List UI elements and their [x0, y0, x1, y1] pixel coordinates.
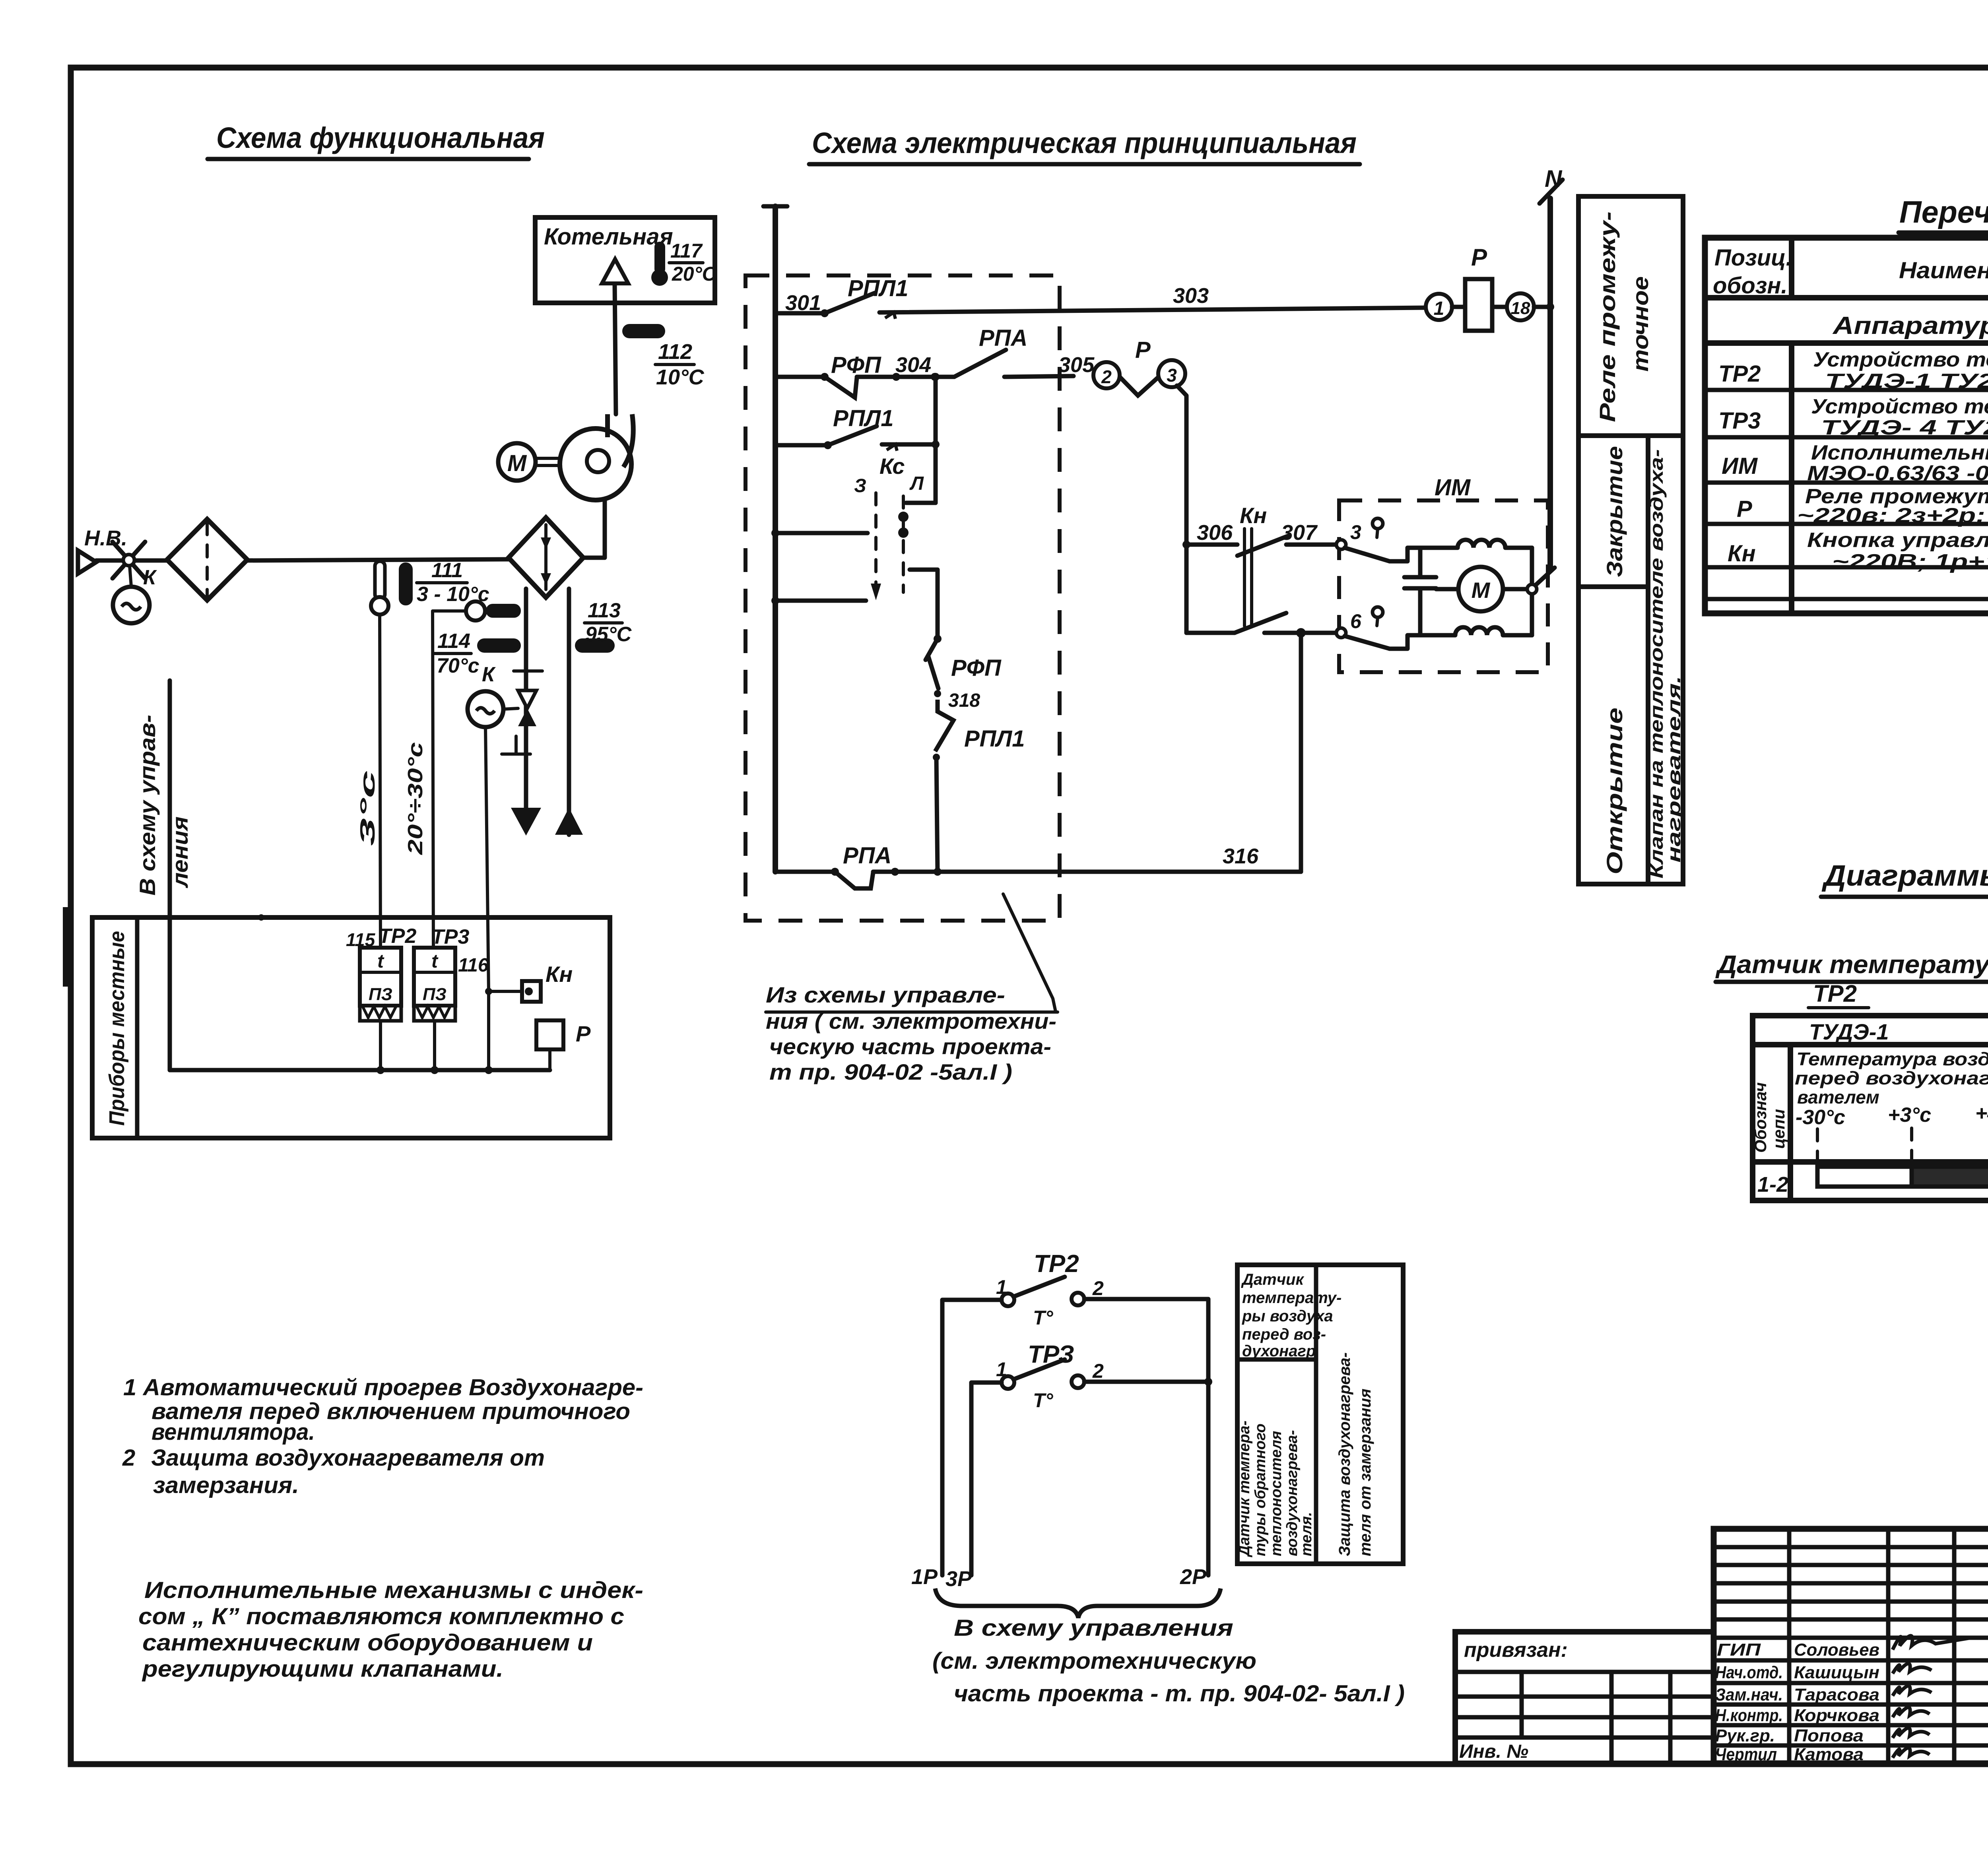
- svg-text:регулирующими клапанами.: регулирующими клапанами.: [142, 1656, 503, 1682]
- signatures squiggles: [1893, 1636, 1971, 1758]
- svg-text:Рук.гр.: Рук.гр.: [1715, 1726, 1775, 1745]
- svg-text:1 Автоматический прогрев Воз: 1 Автоматический прогрев Воздухонагре-: [123, 1375, 643, 1400]
- attachment table привязан: [1455, 1632, 1714, 1763]
- wire: instruments bottom bus: [170, 914, 550, 1074]
- winding upper of ИМ: [1390, 540, 1532, 561]
- note: В схему управления: [932, 1615, 1405, 1706]
- svg-text:Кнопка управления ПКЕ-212-1: Кнопка управления ПКЕ-212-1У2: [1807, 529, 1988, 552]
- damper valve K on duct: [113, 542, 157, 589]
- svg-text:305: 305: [1058, 353, 1095, 377]
- svg-text:В схему управ-: В схему управ-: [135, 715, 160, 896]
- right riser of ИМ with contact to N: [1527, 548, 1555, 635]
- svg-text:Кн: Кн: [1728, 541, 1756, 566]
- wire from circle 3 down to Кн: [1177, 386, 1190, 633]
- node РПЛ1 second line: [775, 441, 832, 449]
- svg-text:сантехническим оборудованием: сантехническим оборудованием и: [142, 1630, 593, 1656]
- wire: duct from heater to fan inlet: [583, 474, 605, 558]
- wire 307: [1281, 521, 1337, 545]
- phase bus with top cap: [763, 206, 787, 872]
- dashed panel boundary box: [745, 275, 1060, 921]
- svg-text:К: К: [482, 663, 496, 686]
- svg-text:РПЛ1: РПЛ1: [964, 726, 1025, 752]
- control valve on heating pipe: [482, 663, 542, 754]
- sensor pocket 112: [622, 324, 705, 389]
- supply fan (volute with inlet circle): [560, 414, 633, 500]
- svg-text:ТУДЭ-1: ТУДЭ-1: [1809, 1019, 1889, 1044]
- legend box Закрытие: [1578, 436, 1648, 587]
- wire: to control circuit (В схему управления): [135, 681, 192, 1070]
- side table: sensor purposes: [1237, 1265, 1403, 1564]
- svg-text:117: 117: [670, 240, 703, 262]
- wire 316 riser: [1299, 633, 1303, 872]
- wire: main air duct: [96, 559, 509, 560]
- motor M in ИМ: [1436, 567, 1532, 611]
- svg-text:К: К: [143, 566, 157, 589]
- brace В схему управления: [935, 1588, 1221, 1618]
- title: Перечень элементов: [1899, 194, 1988, 233]
- svg-text:6: 6: [1350, 610, 1362, 632]
- bus stub to З lower: [771, 597, 866, 605]
- air heater (diamond with flow arrow): [509, 518, 583, 597]
- signature names: [1794, 1640, 1879, 1764]
- svg-text:10°С: 10°С: [656, 365, 705, 389]
- svg-text:306: 306: [1197, 521, 1233, 545]
- svg-text:Датчик темпера-: Датчик темпера-: [1236, 1421, 1253, 1557]
- svg-text:Защита воздухонагревателя о: Защита воздухонагревателя от: [151, 1445, 545, 1471]
- svg-text:Из схемы управле-: Из схемы управле-: [766, 982, 1005, 1007]
- svg-text:3: 3: [1350, 521, 1361, 543]
- svg-text:116: 116: [458, 955, 489, 976]
- svg-text:Позиц.: Позиц.: [1714, 245, 1792, 271]
- svg-text:2: 2: [1092, 1277, 1104, 1299]
- svg-text:304: 304: [895, 353, 931, 377]
- svg-text:Реле промежу-: Реле промежу-: [1595, 211, 1620, 422]
- valve actuator circle: [468, 691, 518, 727]
- svg-text:+40°с: +40°с: [1975, 1102, 1988, 1125]
- svg-text:70°с: 70°с: [437, 654, 480, 677]
- svg-text:Температура воздуха: Температура воздуха: [1796, 1049, 1988, 1069]
- svg-text:Попова: Попова: [1794, 1726, 1864, 1745]
- heating pipe return (up arrow): [555, 589, 583, 835]
- svg-text:ТР2: ТР2: [379, 925, 416, 948]
- svg-text:часть проекта - т. пр. 904-02: часть проекта - т. пр. 904-02- 5ал.I ): [954, 1681, 1405, 1706]
- svg-text:ТУДЭ-1 ТУ25-02. 1074-75: ТУДЭ-1 ТУ25-02. 1074-75: [1825, 370, 1988, 393]
- svg-text:Корчкова: Корчкова: [1794, 1706, 1879, 1725]
- svg-text:1Р: 1Р: [911, 1565, 938, 1589]
- section row: Аппаратура по месту: [1832, 312, 1988, 339]
- thermometer with bulb (line 115 to ТР2): [371, 561, 388, 615]
- svg-text:Н.контр.: Н.контр.: [1715, 1706, 1783, 1725]
- contact РПА (line 304): [935, 325, 1095, 377]
- svg-text:3Р: 3Р: [945, 1567, 972, 1591]
- terminal circle 3: [1158, 360, 1185, 387]
- svg-text:114: 114: [437, 630, 470, 653]
- contact РПЛ1 vertical: [933, 700, 1025, 872]
- wire: sensor 114 down to ТР3: [433, 611, 466, 948]
- svg-text:Нач.отд.: Нач.отд.: [1715, 1663, 1783, 1682]
- svg-text:307: 307: [1281, 521, 1318, 545]
- svg-text:нагревателя.: нагревателя.: [1664, 676, 1684, 863]
- svg-text:Т°: Т°: [1033, 1389, 1054, 1412]
- svg-text:т пр. 904-02 -5ал.I ): т пр. 904-02 -5ал.I ): [769, 1059, 1012, 1084]
- node РФП line: [775, 373, 829, 381]
- svg-text:Зам.нач.: Зам.нач.: [1715, 1685, 1783, 1705]
- svg-text:Кс: Кс: [879, 454, 905, 479]
- svg-text:ления: ления: [167, 816, 192, 888]
- svg-text:ТР3: ТР3: [431, 925, 469, 948]
- svg-text:Кашицын: Кашицын: [1794, 1663, 1879, 1682]
- svg-text:Н.В.: Н.В.: [84, 526, 127, 550]
- filter (diamond with dashed diagonal): [167, 519, 247, 600]
- contact РПЛ1 (second): [828, 405, 940, 451]
- note: Из схемы управления: [766, 982, 1058, 1084]
- svg-text:РПЛ1: РПЛ1: [848, 275, 909, 301]
- svg-text:Датчик температуры: Датчик температуры: [1715, 950, 1988, 979]
- svg-text:Р: Р: [1737, 496, 1752, 522]
- bus stub to З upper: [771, 529, 868, 537]
- svg-text:сом „ К” поставляются компл: сом „ К” поставляются комплектно с: [138, 1604, 624, 1629]
- instrument ТР2: [346, 925, 416, 1021]
- terminal circle 2: [1093, 362, 1120, 388]
- boiler room box Котельная: [535, 217, 715, 303]
- svg-text:Схема функциональная: Схема функциональная: [216, 121, 545, 154]
- actuator ИМ dashed box: [1339, 475, 1548, 672]
- note 1: Автоматический прогрев воздухонагревателя: [123, 1375, 643, 1445]
- relay Р in box: [536, 1020, 591, 1070]
- svg-text:111: 111: [431, 559, 463, 582]
- svg-text:Перечень элементов: Перечень элементов: [1899, 194, 1988, 229]
- signature roles: [1715, 1640, 1783, 1764]
- svg-text:теля.: теля.: [1298, 1512, 1315, 1556]
- svg-text:Инв. №: Инв. №: [1459, 1741, 1528, 1762]
- svg-text:112: 112: [658, 340, 692, 364]
- svg-text:туры обратного: туры обратного: [1252, 1423, 1269, 1556]
- svg-text:Катова: Катова: [1794, 1745, 1864, 1764]
- svg-text:Л: Л: [909, 473, 924, 494]
- svg-text:ИМ: ИМ: [1722, 453, 1758, 479]
- svg-text:113: 113: [588, 599, 621, 622]
- note 3: Исполнительные механизмы: [138, 1577, 643, 1682]
- svg-text:303: 303: [1173, 284, 1209, 308]
- svg-text:МЭО-0,63/63 -0,25 ТУ1- 01.03: МЭО-0,63/63 -0,25 ТУ1- 01.0321-75: [1807, 462, 1988, 485]
- element table grid: [1705, 238, 1988, 613]
- side table cell 2 rotated text: [1236, 1421, 1315, 1557]
- relay coil Р: [1452, 244, 1507, 331]
- svg-text:-30°с: -30°с: [1796, 1106, 1845, 1129]
- svg-text:теля от замерзания: теля от замерзания: [1357, 1388, 1374, 1556]
- svg-text:ния ( см. электротехни-: ния ( см. электротехни-: [766, 1008, 1056, 1034]
- svg-text:Устройство терморегулирующе: Устройство терморегулирующее: [1813, 348, 1988, 371]
- terminal 3 of ИМ: [1336, 518, 1390, 561]
- terminal labels 1Р 3Р 2Р: [911, 1565, 1207, 1591]
- sensor ТР2 diagram table: [1751, 1016, 1988, 1200]
- svg-text:~220в; 2з+2р; ТУ16-523 457: ~220в; 2з+2р; ТУ16-523 457-74: [1797, 504, 1988, 527]
- svg-text:Аппаратура по месту: Аппаратура по месту: [1832, 312, 1988, 339]
- svg-text:18: 18: [1511, 299, 1530, 318]
- svg-text:Т°: Т°: [1033, 1307, 1054, 1329]
- svg-text:РПА: РПА: [979, 325, 1027, 351]
- svg-text:Наименование: Наименование: [1899, 258, 1988, 283]
- side table cell 3 rotated text: [1336, 1352, 1374, 1556]
- svg-text:Исполнительные механизмы: Исполнительные механизмы с индек-: [144, 1577, 643, 1603]
- svg-text:Р: Р: [576, 1021, 591, 1046]
- svg-text:РПЛ1: РПЛ1: [833, 405, 894, 431]
- svg-text:Открытие: Открытие: [1602, 708, 1627, 875]
- air intake arrow Н.В.: [78, 526, 127, 574]
- svg-text:ческую часть проекта-: ческую часть проекта-: [769, 1034, 1051, 1059]
- side table cell 1 text: [1241, 1271, 1342, 1360]
- note 2: Защита воздухонагревателя: [122, 1445, 545, 1498]
- svg-text:115: 115: [346, 929, 376, 950]
- svg-text:привязан:: привязан:: [1464, 1639, 1568, 1662]
- svg-text:Р: Р: [1471, 244, 1487, 271]
- thermometer 117 in boiler room: [651, 240, 717, 286]
- svg-text:Закрытие: Закрытие: [1602, 446, 1627, 577]
- sensor pocket 113: [575, 599, 632, 653]
- svg-text:t: t: [377, 951, 384, 972]
- ТР2 diagram content: [1795, 1049, 1988, 1187]
- svg-text:цепи: цепи: [1769, 1109, 1788, 1149]
- svg-text:Р: Р: [1135, 337, 1151, 363]
- svg-text:духонагр: духонагр: [1242, 1342, 1316, 1360]
- svg-text:ПЗ: ПЗ: [423, 985, 447, 1004]
- row Р: [1737, 485, 1988, 527]
- svg-text:М: М: [507, 450, 527, 476]
- scan artifact on left frame: [63, 907, 73, 987]
- capacitor in ИМ: [1404, 548, 1436, 635]
- terminal circle 18: [1507, 293, 1554, 320]
- contact РПЛ1 (line 301): [775, 275, 909, 319]
- svg-text:20°÷30°с: 20°÷30°с: [404, 742, 427, 855]
- sensor ТР2 diagram title: [1715, 950, 1988, 1008]
- title: Схема электрическая принципиальная: [809, 126, 1360, 164]
- local instruments box Приборы местные: [92, 917, 610, 1138]
- svg-text:обозн.: обозн.: [1713, 273, 1788, 299]
- wire: valve actuator down to Кн: [485, 727, 492, 1070]
- legend column Клапан на теплоносителе: [1646, 436, 1684, 884]
- sensor circle 114 with pocket: [435, 601, 521, 677]
- motor M of fan: [498, 443, 560, 481]
- Кн lower contact: [1186, 613, 1337, 638]
- terminal circle 1: [1426, 294, 1452, 320]
- svg-text:Диаграммы замыкания контакт: Диаграммы замыкания контактов: [1821, 859, 1988, 892]
- bold thermometer 111: [399, 559, 489, 606]
- svg-text:95°С: 95°С: [585, 623, 632, 646]
- svg-text:Датчик: Датчик: [1241, 1271, 1304, 1288]
- svg-text:2: 2: [122, 1445, 135, 1471]
- wires ТР2: [942, 1299, 1208, 1575]
- actuator circle for damper K: [113, 566, 149, 623]
- svg-text:t: t: [431, 951, 439, 972]
- svg-text:(см. электротехническую: (см. электротехническую: [932, 1648, 1256, 1674]
- label 3°С: [356, 770, 379, 846]
- svg-text:РФП: РФП: [951, 655, 1002, 681]
- svg-text:2: 2: [1101, 367, 1112, 387]
- svg-text:Чертил: Чертил: [1715, 1745, 1777, 1764]
- svg-text:N: N: [1545, 165, 1563, 192]
- svg-text:2Р: 2Р: [1180, 1565, 1207, 1589]
- push button Кн in box: [489, 962, 573, 1002]
- svg-text:З: З: [854, 475, 866, 496]
- sensor pocket under 114: [477, 638, 521, 653]
- legend box Реле промежуточное: [1578, 196, 1683, 436]
- terminal 6 of ИМ: [1336, 607, 1390, 649]
- svg-text:ры воздуха: ры воздуха: [1242, 1307, 1333, 1325]
- svg-text:перед воздухонагре-: перед воздухонагре-: [1795, 1068, 1988, 1088]
- svg-text:Схема электрическая принцип: Схема электрическая принципиальная: [812, 126, 1357, 159]
- label 20°÷30°С: [404, 742, 427, 855]
- contact РФП (line 304): [825, 352, 939, 398]
- svg-text:вателем: вателем: [1797, 1087, 1879, 1107]
- svg-text:Устройство терморегулирующе: Устройство терморегулирующее: [1811, 395, 1988, 418]
- svg-text:Котельная: Котельная: [544, 224, 673, 250]
- limit switch КС labels: [854, 454, 924, 496]
- svg-text:ТР2: ТР2: [1718, 361, 1761, 387]
- svg-text:теплоносителя: теплоносителя: [1268, 1431, 1285, 1556]
- legend box Открытие: [1578, 587, 1648, 884]
- contact Р between 2 and 3: [1120, 337, 1158, 396]
- wire from Л to РФП vertical: [910, 570, 942, 643]
- wire 303: [879, 284, 1426, 312]
- svg-text:ТР2: ТР2: [1034, 1250, 1079, 1278]
- row Кн: [1728, 529, 1988, 573]
- contact ТР3: [996, 1341, 1104, 1412]
- heating pipe supply (down arrow): [511, 589, 541, 836]
- node 301: [785, 291, 829, 317]
- title block outer: [1714, 1529, 1988, 1763]
- row ИМ: [1722, 441, 1988, 486]
- svg-text:2: 2: [1092, 1360, 1104, 1382]
- neutral line N: [1540, 165, 1563, 569]
- svg-text:Кн: Кн: [1240, 503, 1267, 528]
- svg-text:ГИП: ГИП: [1717, 1640, 1761, 1660]
- leader line from panel box: [1003, 894, 1056, 1012]
- svg-text:вентилятора.: вентилятора.: [151, 1419, 315, 1445]
- title: Схема функциональная: [208, 121, 545, 159]
- svg-text:Приборы местные: Приборы местные: [105, 931, 129, 1126]
- contact РФП vertical: [926, 639, 1002, 711]
- svg-text:РПА: РПА: [843, 843, 891, 869]
- push button Кн: [1237, 503, 1288, 626]
- svg-text:Соловьев: Соловьев: [1794, 1640, 1879, 1660]
- svg-text:3: 3: [1167, 365, 1177, 386]
- wire: fan outlet up to boiler room box: [615, 284, 616, 414]
- svg-text:316: 316: [1223, 844, 1259, 868]
- svg-text:~220В; 1р+1з: ~220В; 1р+1з: [1832, 550, 1988, 573]
- svg-text:1: 1: [1434, 298, 1444, 319]
- svg-text:М: М: [1472, 578, 1491, 603]
- svg-text:Обознач: Обознач: [1751, 1082, 1770, 1153]
- wire: sensor 115 down to ТР2: [380, 615, 381, 948]
- svg-text:ТР3: ТР3: [1718, 408, 1761, 434]
- wire 316 bottom line: [775, 843, 1301, 888]
- svg-text:ПЗ: ПЗ: [369, 985, 392, 1004]
- svg-text:ТР2: ТР2: [1813, 980, 1857, 1007]
- svg-text:+3°с: +3°с: [1888, 1103, 1931, 1127]
- svg-text:1-2: 1-2: [1757, 1173, 1788, 1196]
- table headers: [1713, 245, 1988, 299]
- svg-text:Защита воздухонагрева-: Защита воздухонагрева-: [1336, 1352, 1353, 1556]
- svg-text:ТУДЭ- 4 ТУ25-02. 1074-75: ТУДЭ- 4 ТУ25-02. 1074-75: [1821, 416, 1988, 439]
- winding lower of ИМ: [1390, 627, 1532, 649]
- svg-text:Исполнительный механизм: Исполнительный механизм: [1811, 441, 1988, 464]
- svg-text:РФП: РФП: [831, 352, 881, 378]
- svg-text:318: 318: [948, 690, 980, 711]
- wires ТР3: [971, 1378, 1212, 1575]
- svg-text:перед воз-: перед воз-: [1242, 1326, 1326, 1343]
- contact ТР2: [996, 1250, 1104, 1329]
- svg-text:Кн: Кн: [546, 962, 573, 987]
- row ТР2: [1718, 348, 1988, 393]
- row ТР3: [1718, 395, 1988, 439]
- svg-text:температу-: температу-: [1242, 1289, 1342, 1307]
- svg-text:замерзания.: замерзания.: [153, 1472, 299, 1498]
- КС dashed link Л: [898, 496, 909, 592]
- svg-text:20°С: 20°С: [672, 263, 717, 285]
- instrument ТР3: [414, 925, 489, 1021]
- svg-text:В схему управления: В схему управления: [954, 1615, 1233, 1641]
- wire to КС lamp branch: [906, 373, 940, 503]
- svg-text:Тарасова: Тарасова: [1794, 1685, 1879, 1705]
- КС dashed link З: [871, 493, 881, 601]
- signature grid: [1714, 1529, 1988, 1763]
- wire 306: [1186, 521, 1237, 545]
- svg-text:точное: точное: [1628, 276, 1653, 372]
- title: Диаграммы замыкания контактов: [1821, 859, 1988, 897]
- svg-text:3°с: 3°с: [356, 770, 379, 846]
- svg-text:ИМ: ИМ: [1435, 475, 1471, 500]
